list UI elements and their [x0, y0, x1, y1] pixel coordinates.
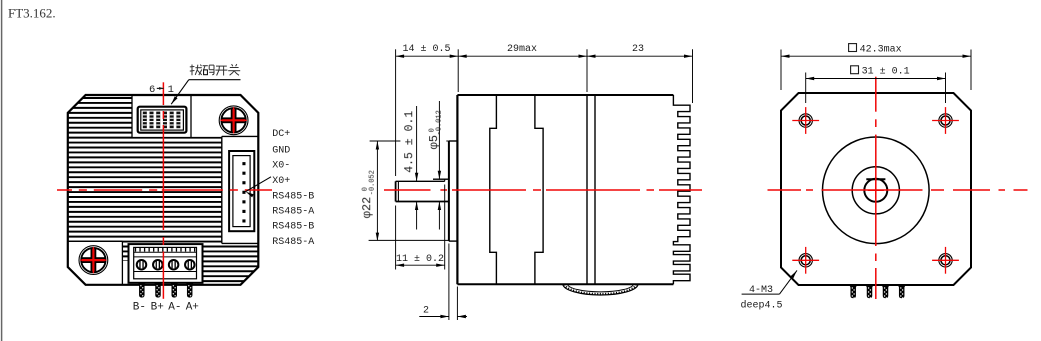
svg-text:GND: GND: [272, 145, 290, 156]
svg-text:14 ± 0.5: 14 ± 0.5: [402, 44, 450, 55]
svg-text:23: 23: [632, 44, 644, 55]
svg-text:4.5 ± 0.1: 4.5 ± 0.1: [403, 111, 416, 173]
svg-text:φ5: φ5: [427, 135, 441, 149]
svg-text:φ22: φ22: [360, 197, 374, 219]
svg-text:42.3max: 42.3max: [860, 44, 902, 55]
svg-text:X0-: X0-: [272, 161, 290, 172]
svg-text:6: 6: [149, 84, 155, 96]
svg-text:X0+: X0+: [272, 176, 290, 187]
svg-text:RS485-B: RS485-B: [272, 222, 314, 233]
svg-text:-0.012: -0.012: [436, 110, 444, 135]
svg-text:deep4.5: deep4.5: [740, 300, 782, 312]
svg-text:B+: B+: [151, 301, 164, 313]
svg-text:RS485-B: RS485-B: [272, 191, 314, 202]
svg-text:29max: 29max: [507, 44, 537, 55]
svg-text:11 ± 0.2: 11 ± 0.2: [396, 254, 444, 265]
svg-text:2: 2: [423, 306, 429, 317]
svg-text:1: 1: [168, 84, 174, 96]
svg-text:RS485-A: RS485-A: [272, 206, 314, 217]
svg-text:FT3.162.: FT3.162.: [8, 6, 56, 21]
svg-text:-0.052: -0.052: [369, 170, 377, 195]
svg-text:RS485-A: RS485-A: [272, 237, 314, 248]
svg-text:B-: B-: [133, 301, 146, 313]
svg-text:31 ± 0.1: 31 ± 0.1: [862, 67, 910, 78]
svg-text:A-: A-: [168, 301, 181, 313]
svg-text:A+: A+: [186, 301, 199, 313]
svg-text:DC+: DC+: [272, 129, 290, 140]
